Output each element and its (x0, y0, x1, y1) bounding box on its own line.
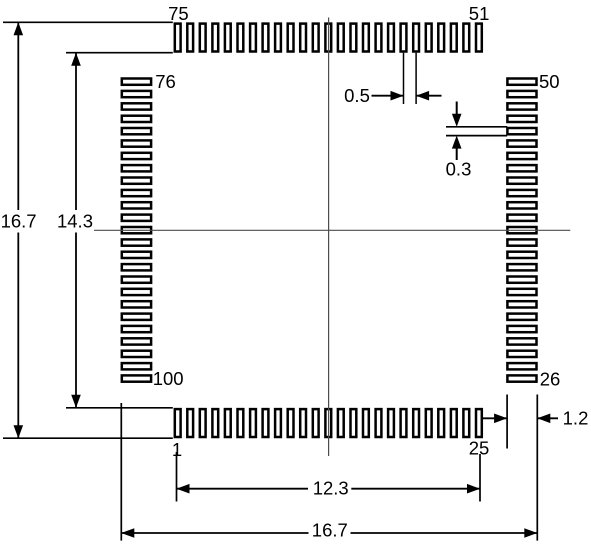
pad 59 (top row) (376, 24, 382, 52)
pad 44 (right column) (507, 153, 536, 159)
pad 48 (right column) (507, 103, 536, 109)
pad 27 (right column) (507, 363, 536, 369)
pad 71 (top row) (225, 24, 231, 52)
pad 19 (bottom row) (401, 409, 407, 437)
arrowhead left (1.2) (537, 414, 550, 424)
pad 64 (top row) (313, 24, 319, 52)
pad 67 (top row) (275, 24, 281, 52)
arrowhead right (12.3) (467, 484, 480, 494)
pad 57 (top row) (401, 24, 407, 52)
pad 85 (left column) (122, 190, 151, 196)
pad 53 (top row) (451, 24, 457, 52)
extension line top (14.3, top pad lower edge) (66, 52, 173, 54)
pad 93 (left column) (122, 289, 151, 295)
pad 43 (right column) (507, 165, 536, 171)
svg-text:51: 51 (469, 3, 490, 24)
pad 60 (top row) (363, 24, 369, 52)
pad 96 (left column) (122, 326, 151, 332)
arrowhead down (0.3) (452, 114, 462, 127)
pad 78 (left column) (122, 103, 151, 109)
arrowhead right (0.5) (391, 91, 404, 101)
svg-text:26: 26 (540, 368, 561, 389)
arrowhead right (1.2) (494, 414, 507, 424)
svg-text:1: 1 (172, 439, 182, 460)
pad 55 (top row) (426, 24, 432, 52)
extension line (12.3, pad 25 center) (479, 454, 481, 502)
extension line (1.2 & 16.7, right pad outer edge) (536, 395, 538, 541)
pad 51 (top row) (476, 24, 482, 52)
arrowhead left (16.7 bottom) (121, 528, 134, 538)
pad 77 (left column) (122, 91, 151, 97)
dimension line 0.5 right segment (416, 95, 441, 97)
pad 36 (right column) (507, 252, 536, 258)
pad 32 (right column) (507, 301, 536, 307)
dimension line 0.5 left segment (372, 95, 404, 97)
extension line top (16.7 left, top pad upper edge) (3, 21, 173, 23)
pad 33 (right column) (507, 289, 536, 295)
pad 84 (left column) (122, 178, 151, 184)
pad 7 (bottom row) (250, 409, 256, 437)
pad 11 (bottom row) (300, 409, 306, 437)
svg-text:25: 25 (469, 437, 490, 458)
pad 4 (bottom row) (212, 409, 218, 437)
svg-text:16.7: 16.7 (312, 520, 348, 541)
pad 73 (top row) (200, 24, 206, 52)
pad 54 (top row) (438, 24, 444, 52)
pad 61 (top row) (351, 24, 357, 52)
pad 10 (bottom row) (288, 409, 294, 437)
pad 68 (top row) (263, 24, 269, 52)
pad 94 (left column) (122, 301, 151, 307)
svg-text:12.3: 12.3 (313, 477, 349, 498)
pad 28 (right column) (507, 351, 536, 357)
pad 12 (bottom row) (313, 409, 319, 437)
pad 39 (right column) (507, 215, 536, 221)
pad 98 (left column) (122, 351, 151, 357)
pad 38 (right column) (507, 227, 536, 233)
dimension line 16.7 left lower segment (17, 233, 19, 439)
pad 95 (left column) (122, 314, 151, 320)
pad 5 (bottom row) (225, 409, 231, 437)
pad 30 (right column) (507, 326, 536, 332)
arrowhead right (16.7 bottom) (524, 528, 537, 538)
pad 34 (right column) (507, 277, 536, 283)
dimension line 1.2 left segment (483, 417, 507, 419)
pad 50 (right column) (507, 79, 536, 85)
pad 69 (top row) (250, 24, 256, 52)
pad 46 (right column) (507, 128, 536, 134)
pad 21 (bottom row) (426, 409, 432, 437)
pad 90 (left column) (122, 252, 151, 258)
pad 100 (left column) (122, 375, 151, 381)
pad 92 (left column) (122, 277, 151, 283)
pad 13 (bottom row) (325, 409, 331, 437)
svg-text:75: 75 (168, 3, 189, 24)
extension line (1.2, right pad inner edge) (506, 395, 508, 449)
pad 40 (right column) (507, 202, 536, 208)
dimension line 12.3 right segment (351, 488, 480, 490)
pad 3 (bottom row) (200, 409, 206, 437)
pad 89 (left column) (122, 239, 151, 245)
arrowhead down (16.7 left) (14, 425, 24, 438)
pad 16 (bottom row) (363, 409, 369, 437)
pad 35 (right column) (507, 264, 536, 270)
dimension line 1.2 right segment (537, 417, 558, 419)
arrowhead down (14.3) (71, 395, 81, 408)
arrowhead up (16.7 left) (14, 22, 24, 35)
pad 74 (top row) (187, 24, 193, 52)
pad 47 (right column) (507, 116, 536, 122)
pad 65 (top row) (300, 24, 306, 52)
pad 41 (right column) (507, 190, 536, 196)
pad 2 (bottom row) (187, 409, 193, 437)
svg-text:76: 76 (155, 71, 176, 92)
pad 87 (left column) (122, 215, 151, 221)
pad 1 (bottom row) (175, 409, 181, 437)
pad 15 (bottom row) (351, 409, 357, 437)
pad 58 (top row) (388, 24, 394, 52)
pad 17 (bottom row) (376, 409, 382, 437)
pad 82 (left column) (122, 153, 151, 159)
arrow stem up (0.3) (456, 146, 458, 160)
dimension line 16.7 left upper segment (17, 22, 19, 210)
pad 37 (right column) (507, 239, 536, 245)
extension line (16.7 bottom, left pad outer edge) (120, 403, 122, 541)
pad 23 (bottom row) (451, 409, 457, 437)
svg-text:100: 100 (153, 368, 184, 389)
svg-text:14.3: 14.3 (57, 211, 93, 232)
pad 80 (left column) (122, 128, 151, 134)
pad 42 (right column) (507, 178, 536, 184)
pad 99 (left column) (122, 363, 151, 369)
pad 49 (right column) (507, 91, 536, 97)
extension line bottom (16.7 left, bottom pad lower edge) (3, 437, 173, 439)
dimension line 16.7 bottom right segment (351, 532, 538, 534)
pad 26 (right column) (507, 375, 536, 381)
pad 76 (left column) (122, 79, 151, 85)
pad 97 (left column) (122, 338, 151, 344)
svg-text:0.5: 0.5 (344, 85, 370, 106)
pad 6 (bottom row) (238, 409, 244, 437)
pad 88 (left column) (122, 227, 151, 233)
pad 86 (left column) (122, 202, 151, 208)
extension line (0.5, pad 57 center) (403, 53, 405, 104)
pad 31 (right column) (507, 314, 536, 320)
pad 8 (bottom row) (263, 409, 269, 437)
pad 52 (top row) (463, 24, 469, 52)
arrowhead left (0.5) (416, 91, 429, 101)
extension line (12.3, pad 1 center) (176, 452, 178, 502)
pad 56 (top row) (413, 24, 419, 52)
arrow stem down (0.3) (456, 102, 458, 117)
svg-text:50: 50 (539, 71, 560, 92)
pad 18 (bottom row) (388, 409, 394, 437)
pad 75 (top row) (175, 24, 181, 52)
arrowhead up (0.3) (452, 136, 462, 149)
pad 79 (left column) (122, 116, 151, 122)
pad 81 (left column) (122, 140, 151, 146)
extension line (0.5, pad 56 center) (415, 53, 417, 104)
pad 9 (bottom row) (275, 409, 281, 437)
pad 14 (bottom row) (338, 409, 344, 437)
horizontal centerline (94, 229, 570, 231)
dimension line 14.3 upper segment (75, 53, 77, 210)
pad 62 (top row) (338, 24, 344, 52)
pad 91 (left column) (122, 264, 151, 270)
pad 24 (bottom row) (463, 409, 469, 437)
dimension line 14.3 lower segment (75, 233, 77, 408)
vertical centerline (328, 18, 330, 457)
pad 20 (bottom row) (413, 409, 419, 437)
svg-text:16.7: 16.7 (1, 211, 37, 232)
arrowhead left (12.3) (177, 484, 190, 494)
pad 83 (left column) (122, 165, 151, 171)
extension line (0.3, pad 46 top edge) (446, 126, 507, 128)
pad 22 (bottom row) (438, 409, 444, 437)
extension line (0.3, pad 46 bottom edge) (446, 135, 507, 137)
dimension line 16.7 bottom left segment (121, 532, 308, 534)
pad 45 (right column) (507, 140, 536, 146)
pad 70 (top row) (238, 24, 244, 52)
dimension line 12.3 left segment (177, 488, 309, 490)
pad 63 (top row) (325, 24, 331, 52)
pad 66 (top row) (288, 24, 294, 52)
svg-text:1.2: 1.2 (563, 408, 589, 429)
extension line bottom (14.3, bottom pad upper edge) (66, 407, 173, 409)
pad 72 (top row) (212, 24, 218, 52)
pad 29 (right column) (507, 338, 536, 344)
arrowhead up (14.3) (71, 53, 81, 66)
svg-text:0.3: 0.3 (446, 159, 472, 180)
pad 25 (bottom row) (476, 409, 482, 437)
